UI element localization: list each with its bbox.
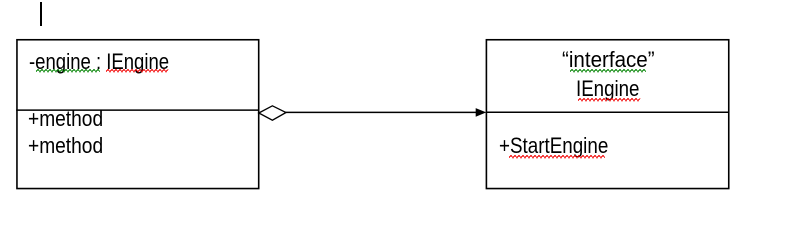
spell squiggle under StartEngine xyxy=(509,155,607,159)
interface name text IEngine xyxy=(576,77,639,101)
grammar squiggle under interface xyxy=(570,69,648,73)
left box divider xyxy=(16,109,259,111)
class box Car (left) xyxy=(17,40,259,189)
aggregation diamond xyxy=(259,106,286,120)
interface box IEngine (right) xyxy=(486,40,728,189)
attribute text -engine : IEngine xyxy=(29,50,169,74)
arrowhead xyxy=(476,108,487,117)
grammar squiggle under engine xyxy=(36,69,102,73)
right box divider xyxy=(486,111,730,113)
stereotype text "interface" xyxy=(562,48,655,72)
wire: association line xyxy=(285,111,478,113)
method text +method (line 2) xyxy=(28,134,103,158)
spell squiggle under IEngine (right box) xyxy=(578,98,641,102)
method text +method (line 1) xyxy=(28,107,103,131)
spell squiggle under IEngine (left box) xyxy=(106,69,169,73)
operation text +StartEngine xyxy=(499,134,608,158)
text cursor xyxy=(40,2,42,26)
